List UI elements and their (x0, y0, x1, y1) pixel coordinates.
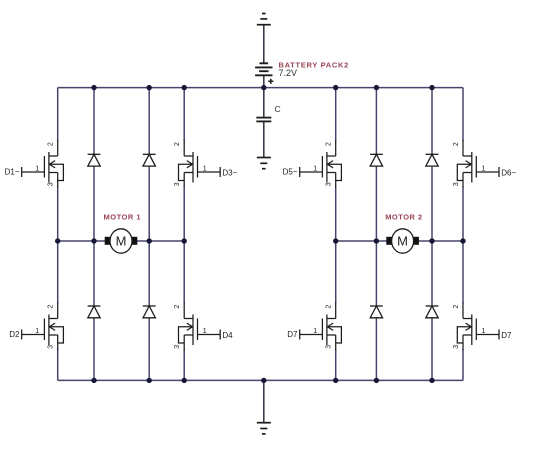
svg-text:3: 3 (453, 182, 460, 186)
svg-text:D2: D2 (9, 330, 20, 339)
svg-text:1: 1 (35, 328, 39, 335)
svg-text:1: 1 (482, 328, 486, 335)
svg-text:D1~: D1~ (5, 168, 20, 177)
svg-text:D7: D7 (501, 331, 512, 340)
svg-text:3: 3 (326, 182, 333, 186)
svg-text:D4: D4 (222, 331, 233, 340)
svg-text:2: 2 (453, 142, 460, 146)
svg-text:MOTOR 1: MOTOR 1 (104, 213, 142, 222)
svg-text:3: 3 (174, 345, 181, 349)
svg-text:MOTOR 2: MOTOR 2 (385, 213, 423, 222)
svg-text:1: 1 (203, 328, 207, 335)
svg-text:2: 2 (174, 142, 181, 146)
svg-text:3: 3 (174, 182, 181, 186)
svg-text:1: 1 (35, 165, 39, 172)
svg-text:D3~: D3~ (222, 169, 237, 178)
svg-text:2: 2 (326, 142, 333, 146)
svg-text:1: 1 (313, 328, 317, 335)
svg-text:D5~: D5~ (283, 168, 298, 177)
svg-text:2: 2 (453, 305, 460, 309)
svg-text:3: 3 (453, 345, 460, 349)
svg-text:D6~: D6~ (501, 169, 516, 178)
svg-text:2: 2 (326, 305, 333, 309)
svg-text:2: 2 (48, 142, 55, 146)
svg-text:C: C (275, 104, 281, 114)
svg-text:3: 3 (48, 345, 55, 349)
svg-text:M: M (397, 234, 408, 249)
svg-text:3: 3 (48, 182, 55, 186)
svg-text:7.2V: 7.2V (279, 68, 298, 78)
svg-text:2: 2 (174, 305, 181, 309)
svg-text:1: 1 (313, 165, 317, 172)
svg-text:1: 1 (203, 165, 207, 172)
svg-text:3: 3 (326, 345, 333, 349)
svg-text:2: 2 (48, 305, 55, 309)
svg-text:1: 1 (482, 165, 486, 172)
svg-text:D7: D7 (287, 330, 298, 339)
svg-text:M: M (116, 234, 127, 249)
